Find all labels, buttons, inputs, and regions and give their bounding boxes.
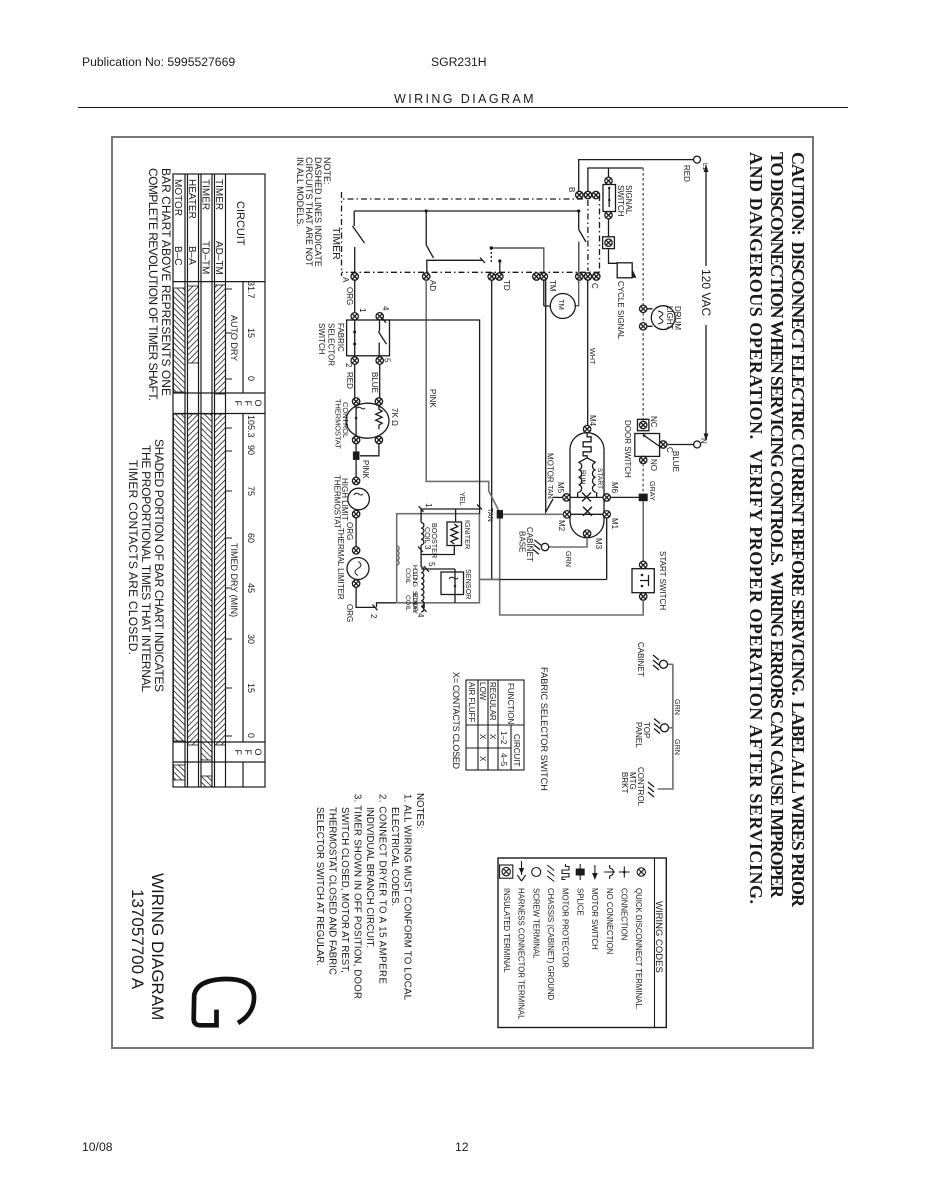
wire high limit to thermal limiter <box>355 518 357 547</box>
top panel stub <box>669 727 673 729</box>
svg-text:75: 75 <box>246 486 256 496</box>
svg-text:3: 3 <box>423 545 432 550</box>
cabinet ground symbol <box>653 655 659 670</box>
harness tick heater 2 <box>373 605 378 611</box>
door switch box <box>635 434 660 457</box>
svg-text:X: X <box>488 734 497 740</box>
harness tick 3 <box>418 547 423 553</box>
svg-text:THERMOSTAT: THERMOSTAT <box>333 475 342 529</box>
terminal door C <box>660 441 667 448</box>
svg-text:THE PROPORTIONAL TIMES THAT IN: THE PROPORTIONAL TIMES THAT INTERNAL <box>139 445 153 692</box>
legend connection symbol <box>619 867 630 878</box>
cycle signal flag <box>632 269 636 278</box>
top panel screw terminal <box>661 724 669 732</box>
thermal limiter body <box>347 558 369 580</box>
legend splice symbol <box>576 864 585 880</box>
svg-text:CYCLE SIGNAL: CYCLE SIGNAL <box>616 281 625 340</box>
svg-text:1: 1 <box>424 503 433 508</box>
bar TIMER TD-TM timed dry <box>201 414 212 760</box>
svg-text:NO CONNECTION: NO CONNECTION <box>605 888 614 954</box>
svg-text:F: F <box>233 750 243 756</box>
wire thermal limiter to terminal 2 <box>356 587 375 607</box>
label FABRIC SELECTOR SWITCH <box>317 323 345 366</box>
cabinet base ground <box>533 540 542 554</box>
svg-text:X: X <box>478 734 487 740</box>
terminal M4 <box>583 425 590 432</box>
terminal M6 <box>603 494 610 501</box>
thermal limiter terminal 2 <box>352 580 359 587</box>
header: model number <box>431 55 487 69</box>
drum light terminal 2 <box>640 323 647 330</box>
svg-text:NOTES:: NOTES: <box>414 793 425 829</box>
control thermostat contact line <box>355 405 357 436</box>
svg-text:120 VAC: 120 VAC <box>699 269 713 316</box>
winding to contact links <box>578 492 597 497</box>
motor protector squiggle <box>583 433 591 458</box>
svg-text:31.7: 31.7 <box>246 281 256 299</box>
cycle signal box <box>617 263 632 278</box>
svg-text:ELECTRICAL CODES.: ELECTRICAL CODES. <box>389 807 400 906</box>
svg-text:MOTOR: MOTOR <box>172 179 183 216</box>
timer contact blade B-C <box>579 211 586 242</box>
svg-text:AD: AD <box>428 280 437 291</box>
svg-text:CABINET: CABINET <box>636 642 645 677</box>
label SIGNAL SWITCH <box>616 185 633 217</box>
dashed stub TD-TM link <box>490 248 492 264</box>
svg-text:M4: M4 <box>588 415 597 427</box>
svg-text:IN ALL MODELS.: IN ALL MODELS. <box>295 157 305 227</box>
START winding <box>593 463 596 493</box>
timer internal bus wire <box>354 210 579 212</box>
drum light leads <box>647 309 653 327</box>
BLUE wire <box>379 364 381 398</box>
bar MOTOR B-C timed dry <box>174 414 186 741</box>
wire C blade to TM motor <box>575 242 579 306</box>
signal switch blade <box>608 187 610 207</box>
sensor box <box>441 572 464 595</box>
svg-text:ORG: ORG <box>345 522 354 540</box>
legend quick disconnect symbol <box>637 868 645 876</box>
NOTE dashed lines text <box>295 157 332 267</box>
high limit terminal 1 <box>352 477 359 484</box>
timer enclosure dash-dot top edge <box>599 195 601 272</box>
svg-text:15: 15 <box>246 328 256 338</box>
svg-text:O: O <box>253 400 263 407</box>
igniter circuit gray box <box>397 514 480 603</box>
svg-text:THERMOSTAT: THERMOSTAT <box>334 399 343 449</box>
svg-text:1: 1 <box>358 308 367 313</box>
igniter loop return <box>421 546 454 555</box>
svg-text:PINK: PINK <box>428 389 437 408</box>
wire splice to high limit <box>355 460 357 477</box>
svg-text:WHT: WHT <box>588 348 597 365</box>
winding junction lines <box>579 458 596 463</box>
high limit bimetal <box>354 493 363 495</box>
RUN winding <box>579 463 582 493</box>
high limit terminal 2 <box>352 510 359 517</box>
harness tick TD riser <box>480 258 485 264</box>
terminal NC <box>640 421 647 428</box>
svg-text:MOTOR: MOTOR <box>546 453 555 483</box>
fabric selector terminal 4 <box>376 313 383 320</box>
secondary coil <box>421 589 424 611</box>
notes text block <box>314 793 425 1001</box>
svg-text:BRKT: BRKT <box>620 772 629 793</box>
svg-text:90: 90 <box>246 445 256 455</box>
svg-text:N: N <box>699 438 708 444</box>
svg-text:SWITCH CLOSED, MOTOR AT REST,: SWITCH CLOSED, MOTOR AT REST, <box>339 807 350 973</box>
heater main wire A to fabric switch <box>354 280 356 312</box>
bar MOTOR B-C wrap stub <box>174 765 186 780</box>
svg-text:0: 0 <box>246 733 256 738</box>
legend no connection symbol <box>604 865 615 879</box>
centrifugal contact X 2 <box>583 507 592 516</box>
svg-text:CAUTION: DISCONNECT ELECTRIC: CAUTION: DISCONNECT ELECTRIC CURRENT BEF… <box>788 152 808 908</box>
dashed drum light branch wire <box>642 168 644 422</box>
start switch terminal top <box>640 561 647 568</box>
fabric selector terminal 1 <box>351 313 358 320</box>
svg-text:SWITCH: SWITCH <box>616 185 625 217</box>
svg-text:SCREW TERMINAL: SCREW TERMINAL <box>531 888 540 959</box>
svg-text:0: 0 <box>246 376 256 381</box>
legend motor protector symbol <box>562 864 569 880</box>
gray splice <box>639 494 648 502</box>
svg-text:TAN: TAN <box>486 508 495 522</box>
legend insulated terminal symbol <box>500 865 513 878</box>
wire TM long line <box>546 280 553 512</box>
svg-text:THERMOSTAT CLOSED AND FABRIC: THERMOSTAT CLOSED AND FABRIC <box>327 807 338 975</box>
label CONTROL MTG BRKT <box>620 767 645 807</box>
svg-text:B: B <box>567 187 576 192</box>
svg-text:ORG: ORG <box>345 604 354 622</box>
wire NO to splice to start switch <box>642 464 644 494</box>
WHT wire C to M4 <box>587 280 589 425</box>
holding coil <box>421 567 424 589</box>
svg-text:F: F <box>243 401 253 407</box>
signal switch terminal right <box>605 212 612 219</box>
svg-text:QUICK DISCONNECT TERMINAL.: QUICK DISCONNECT TERMINAL. <box>634 888 643 1010</box>
terminal L1 <box>694 156 701 163</box>
svg-text:C: C <box>590 283 599 289</box>
7K resistor zigzag <box>376 405 382 429</box>
svg-text:IGNITER: IGNITER <box>463 520 472 549</box>
BLUE wire door C to N <box>667 444 694 446</box>
svg-text:RED: RED <box>682 165 691 182</box>
svg-text:TAN: TAN <box>546 485 555 499</box>
svg-text:TIMER CONTACTS ARE CLOSED.: TIMER CONTACTS ARE CLOSED. <box>126 460 140 655</box>
cabinet screw terminal <box>660 660 668 668</box>
svg-text:M1: M1 <box>610 518 619 530</box>
harness tick YEL <box>477 505 482 510</box>
RED wire <box>354 364 356 398</box>
fabric selector blade 4-5 <box>378 320 386 356</box>
drum light bulb <box>651 306 675 330</box>
motor stadium outline <box>570 433 604 538</box>
svg-text:GRAY: GRAY <box>648 481 657 501</box>
svg-text:NO: NO <box>649 459 658 471</box>
svg-text:2: 2 <box>369 614 378 619</box>
harness tick fabric 4 <box>381 317 386 323</box>
insulated terminal <box>603 237 615 249</box>
label CABINET BASE <box>518 527 535 562</box>
svg-text:FABRIC SELECTOR SWITCH: FABRIC SELECTOR SWITCH <box>539 667 549 791</box>
chart table grid <box>173 174 265 787</box>
centrifugal switch line M1-M2 <box>571 513 603 515</box>
footer: page number <box>455 1140 469 1154</box>
svg-text:X: X <box>478 756 487 762</box>
svg-text:WIRING CODES: WIRING CODES <box>653 901 664 973</box>
svg-text:TO DISCONNECTION WHEN SERVICIN: TO DISCONNECTION WHEN SERVICING CONTROLS… <box>767 152 787 899</box>
svg-text:GRN: GRN <box>673 699 682 715</box>
svg-text:HARNESS CONNECTOR TERMINAL: HARNESS CONNECTOR TERMINAL <box>517 888 526 1020</box>
svg-text:YEL: YEL <box>458 492 467 506</box>
chart scale tick marks <box>226 289 233 736</box>
svg-text:TIMER: TIMER <box>200 179 211 210</box>
control thermostat terminals <box>352 398 359 405</box>
svg-text:AD–TM: AD–TM <box>213 241 224 275</box>
svg-text:M2: M2 <box>557 520 566 532</box>
svg-text:SELECTOR: SELECTOR <box>327 323 336 366</box>
svg-text:TM: TM <box>557 299 566 310</box>
control thermostat body <box>346 403 389 438</box>
main igniter line with booster coil <box>420 509 422 523</box>
top panel ground symbol <box>654 719 660 734</box>
svg-text:7K Ω: 7K Ω <box>390 408 399 426</box>
svg-text:TM: TM <box>548 280 557 292</box>
timer contact blade A <box>353 211 365 273</box>
svg-text:COMPLETE REVOLUTION OF TIMER S: COMPLETE REVOLUTION OF TIMER SHAFT. <box>146 168 160 401</box>
sensor bimetal <box>449 577 458 579</box>
timer motor circle <box>550 294 575 319</box>
svg-text:RED: RED <box>345 372 354 389</box>
centrifugal switch line M5-M6 <box>571 496 603 498</box>
svg-text:M6: M6 <box>610 482 619 494</box>
wire B to signal switch <box>608 168 610 177</box>
legend screw terminal symbol <box>532 868 541 877</box>
svg-text:AIR FLUFF: AIR FLUFF <box>467 682 476 723</box>
terminal TD pair <box>488 273 495 280</box>
svg-text:SWITCH: SWITCH <box>317 323 326 355</box>
wiring codes box <box>498 858 666 1028</box>
YEL feed wire <box>384 320 480 514</box>
svg-text:B–C: B–C <box>172 246 183 265</box>
svg-text:CHASSIS (CABINET) GROUND: CHASSIS (CABINET) GROUND <box>546 888 555 1001</box>
diagram border box <box>111 136 814 1049</box>
timer enclosure dash-dot left edge <box>342 198 584 200</box>
junction dot bus top <box>577 209 580 212</box>
svg-text:SELECTOR SWITCH AT REGULAR.: SELECTOR SWITCH AT REGULAR. <box>314 807 325 966</box>
signal switch terminal left <box>605 177 612 184</box>
terminal C group <box>576 273 583 280</box>
svg-text:GRN: GRN <box>673 739 682 755</box>
start switch box <box>632 569 654 593</box>
wire M3 to cabinet base <box>549 537 587 547</box>
svg-text:DOOR SWITCH: DOOR SWITCH <box>623 420 632 478</box>
svg-text:SIGNAL: SIGNAL <box>624 185 633 215</box>
header rule <box>78 107 848 108</box>
svg-text:NC: NC <box>649 416 658 428</box>
terminal M5 <box>563 494 570 501</box>
svg-text:137057700 A: 137057700 A <box>128 889 147 990</box>
svg-text:LOW: LOW <box>478 682 487 701</box>
igniter element box <box>447 522 462 546</box>
svg-text:105.3: 105.3 <box>246 415 256 438</box>
terminal M3 <box>583 530 590 537</box>
svg-text:TD–TM: TD–TM <box>200 241 211 274</box>
svg-text:3. TIMER SHOWN IN OFF POSITION: 3. TIMER SHOWN IN OFF POSITION, DOOR <box>352 794 363 999</box>
small coil on box bottom edge <box>397 546 399 565</box>
svg-text:5: 5 <box>383 358 392 363</box>
wire tick 4 stub <box>423 603 425 608</box>
fabric selector terminal 2 <box>351 357 358 364</box>
start switch terminal bottom <box>640 593 647 600</box>
M1 wire <box>479 518 606 580</box>
svg-text:AND DANGEROUS OPERATION. VERI: AND DANGEROUS OPERATION. VERIFY PROPER O… <box>746 152 766 904</box>
svg-text:TIMED DRY (MIN): TIMED DRY (MIN) <box>229 543 239 617</box>
svg-text:SHADED PORTION OF BAR CHART IN: SHADED PORTION OF BAR CHART INDICATES <box>152 439 166 692</box>
ground bus wire <box>658 664 673 789</box>
svg-text:RUN: RUN <box>579 470 586 485</box>
svg-text:5: 5 <box>427 562 436 567</box>
svg-text:4–5: 4–5 <box>499 753 508 767</box>
svg-text:SENSOR: SENSOR <box>464 569 473 599</box>
svg-text:15: 15 <box>246 683 256 693</box>
fabric selector switch box <box>347 320 390 356</box>
junction dot TD-TM link <box>490 246 493 249</box>
fabric table grid <box>466 680 524 770</box>
svg-text:NOTE:: NOTE: <box>322 157 332 185</box>
wire blade to C <box>578 242 580 273</box>
M5 stub <box>553 496 563 498</box>
svg-text:DRUM: DRUM <box>673 306 682 330</box>
start switch return wire <box>500 519 644 616</box>
svg-text:FABRIC: FABRIC <box>336 323 345 352</box>
svg-text:30: 30 <box>246 634 256 644</box>
timer contact blade AD <box>426 245 433 258</box>
svg-text:START SWITCH: START SWITCH <box>658 551 667 610</box>
svg-text:F: F <box>243 750 253 756</box>
svg-text:CONTROL: CONTROL <box>636 767 645 807</box>
door switch NC insulated box <box>638 419 649 430</box>
bar MOTOR B-C auto dry <box>174 288 186 392</box>
label HOLDING COIL <box>404 565 418 587</box>
cabinet base screw terminal <box>541 543 548 550</box>
svg-text:B–A: B–A <box>186 246 197 265</box>
wire thermostat to splice <box>355 444 357 452</box>
drum light filament <box>658 311 663 324</box>
legend harness connector symbol <box>517 861 525 881</box>
harness tick 5 <box>424 566 429 572</box>
svg-text:TIMER: TIMER <box>330 227 342 260</box>
timer TD contact riser <box>427 260 482 272</box>
label HIGH LIMIT THERMOSTAT <box>333 475 350 529</box>
terminal M2 <box>563 511 570 518</box>
harness tick 4 <box>422 607 427 613</box>
terminal N <box>694 441 701 448</box>
timer B-C dash-dot link <box>587 200 589 271</box>
wire M6 to gray splice <box>610 496 639 498</box>
svg-text:INSULATED TERMINAL: INSULATED TERMINAL <box>502 888 511 973</box>
bar TIMER TD-TM wrap stub <box>201 776 212 787</box>
svg-text:CIRCUIT: CIRCUIT <box>512 734 521 767</box>
wire L1 to B <box>579 160 694 192</box>
svg-text:X= CONTACTS CLOSED: X= CONTACTS CLOSED <box>451 672 461 770</box>
svg-text:SECONDARY: SECONDARY <box>411 591 418 614</box>
high limit thermostat body <box>348 488 370 510</box>
svg-text:MOTOR SWITCH: MOTOR SWITCH <box>590 888 599 950</box>
svg-text:COIL: COIL <box>404 595 411 611</box>
svg-text:HEATER: HEATER <box>186 179 197 219</box>
terminal AD <box>423 273 430 280</box>
svg-text:A: A <box>341 277 350 283</box>
7K branch wire to splice <box>360 444 379 456</box>
svg-text:CIRCUIT: CIRCUIT <box>234 201 246 246</box>
svg-text:CIRCUITS THAT ARE NOT: CIRCUITS THAT ARE NOT <box>304 157 314 267</box>
svg-text:AUTO DRY: AUTO DRY <box>229 315 239 361</box>
control thermostat bimetal <box>356 407 365 409</box>
bar HEATER B-A auto dry <box>188 286 199 363</box>
svg-text:60: 60 <box>246 533 256 543</box>
footer: date <box>82 1140 113 1154</box>
svg-text:BLUE: BLUE <box>671 451 680 472</box>
bar TIMER AD-TM timed dry <box>215 414 226 745</box>
svg-text:LIGHT: LIGHT <box>665 306 674 330</box>
fabric selector pole 1-2 wire <box>354 320 356 356</box>
thermal limiter wave <box>355 562 361 576</box>
gray stub to TAN node <box>479 578 499 580</box>
svg-text:REGULAR: REGULAR <box>488 682 497 721</box>
label TOP PANEL <box>634 722 651 748</box>
wire B to branch corner <box>588 168 643 191</box>
timer bar chart hatched bars <box>174 285 226 787</box>
svg-text:INDIVIDUAL BRANCH CIRCUIT.: INDIVIDUAL BRANCH CIRCUIT. <box>364 807 375 948</box>
label SECONDARY COIL <box>404 591 418 614</box>
TD long wire <box>491 280 493 579</box>
svg-text:1. ALL WIRING MUST CONFORM TO: 1. ALL WIRING MUST CONFORM TO LOCAL <box>402 794 413 1001</box>
svg-text:1–2: 1–2 <box>499 731 508 745</box>
signal switch box <box>603 185 616 212</box>
wire to tick 3 <box>420 545 422 567</box>
svg-text:START: START <box>596 468 603 489</box>
svg-text:COIL: COIL <box>423 527 432 544</box>
svg-text:TD: TD <box>502 280 511 291</box>
header: page title <box>394 92 536 106</box>
M2 wire down to TAN splice <box>503 513 563 515</box>
timer enclosure dash-dot bottom edge <box>341 192 343 276</box>
junction dot bus AD <box>425 209 428 212</box>
TAN splice <box>497 510 503 519</box>
svg-text:HOLDING: HOLDING <box>411 565 418 587</box>
igniter zigzag <box>451 524 458 544</box>
thermal limiter terminal 1 <box>352 547 359 554</box>
svg-text:BAR CHART ABOVE REPRESENTS ONE: BAR CHART ABOVE REPRESENTS ONE <box>159 168 173 396</box>
svg-text:45: 45 <box>246 583 256 593</box>
svg-text:DASHED LINES INDICATE: DASHED LINES INDICATE <box>313 157 323 267</box>
timer enclosure dash-dot right terminal strip <box>342 271 600 273</box>
wire tick to igniter box <box>377 603 397 608</box>
AD pink wire <box>426 280 498 510</box>
svg-text:THERMAL LIMITER: THERMAL LIMITER <box>336 528 345 600</box>
start switch push button <box>640 575 649 586</box>
terminal TM pair <box>533 273 540 280</box>
svg-text:O: O <box>253 749 263 756</box>
big letter G <box>194 979 254 1025</box>
svg-text:BASE: BASE <box>518 531 527 552</box>
svg-text:BLUE: BLUE <box>370 372 379 393</box>
TD-TM link wire <box>491 248 544 272</box>
svg-text:M3: M3 <box>594 538 603 550</box>
svg-text:MOTOR PROTECTOR: MOTOR PROTECTOR <box>561 888 570 968</box>
